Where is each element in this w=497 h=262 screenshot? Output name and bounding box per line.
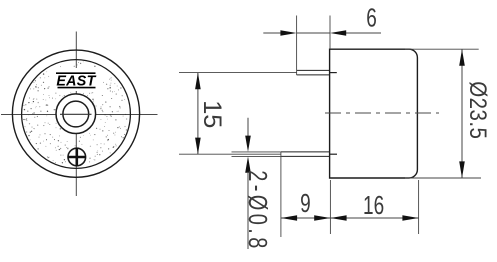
outer circle (buzzer rim)	[12, 50, 139, 177]
dimension 6: extension lines	[297, 16, 330, 76]
upper pin	[297, 70, 330, 75]
dimension 15: dimension line with arrows	[197, 73, 199, 155]
dimension 9 and 16: extension lines	[281, 152, 419, 237]
side view horizontal centerline (dash-dot)	[325, 112, 439, 114]
EAST logo overline	[56, 72, 96, 74]
center hole horizontal centerline	[60, 113, 92, 115]
horizontal centerline (front view)	[1, 114, 158, 116]
EAST logo underline	[58, 87, 96, 89]
svg-text:EAST: EAST	[56, 74, 96, 90]
center hole inner circle	[63, 101, 89, 127]
screw cross	[68, 148, 86, 166]
svg-text:16: 16	[363, 191, 384, 219]
inner ring circle	[22, 60, 131, 169]
dimension D23.5: dimension line with arrows	[461, 49, 463, 178]
svg-text:9: 9	[300, 189, 311, 217]
dimension 6: dimension line with outside arrows	[263, 32, 381, 34]
dimension 16: arrows	[330, 215, 346, 221]
upper pin stub inside body	[330, 72, 337, 74]
svg-text:15: 15	[198, 100, 226, 128]
lower pin	[281, 152, 330, 157]
vertical centerline (front view)	[75, 32, 77, 197]
dimension 2-D0.8: arrows and leader	[247, 118, 249, 137]
dimension 9/16 shared dimension line	[281, 217, 419, 219]
svg-text:2-Ø0.8: 2-Ø0.8	[243, 170, 272, 252]
stipple texture dots	[23, 61, 127, 163]
dimension D23.5: extension lines	[405, 49, 481, 178]
center hole outer circle	[56, 94, 96, 134]
svg-text:6: 6	[366, 4, 377, 32]
side view body outline	[330, 49, 418, 178]
dimension 2-D0.8: extension lines from pin edges	[232, 152, 281, 157]
EAST logo white patch	[50, 68, 102, 91]
dimension 15: extension lines	[179, 73, 297, 155]
lower pin stub inside body	[330, 153, 337, 155]
svg-text:Ø23.5: Ø23.5	[465, 81, 492, 139]
screw circle	[68, 148, 86, 166]
dimension 9: arrows	[281, 215, 297, 221]
